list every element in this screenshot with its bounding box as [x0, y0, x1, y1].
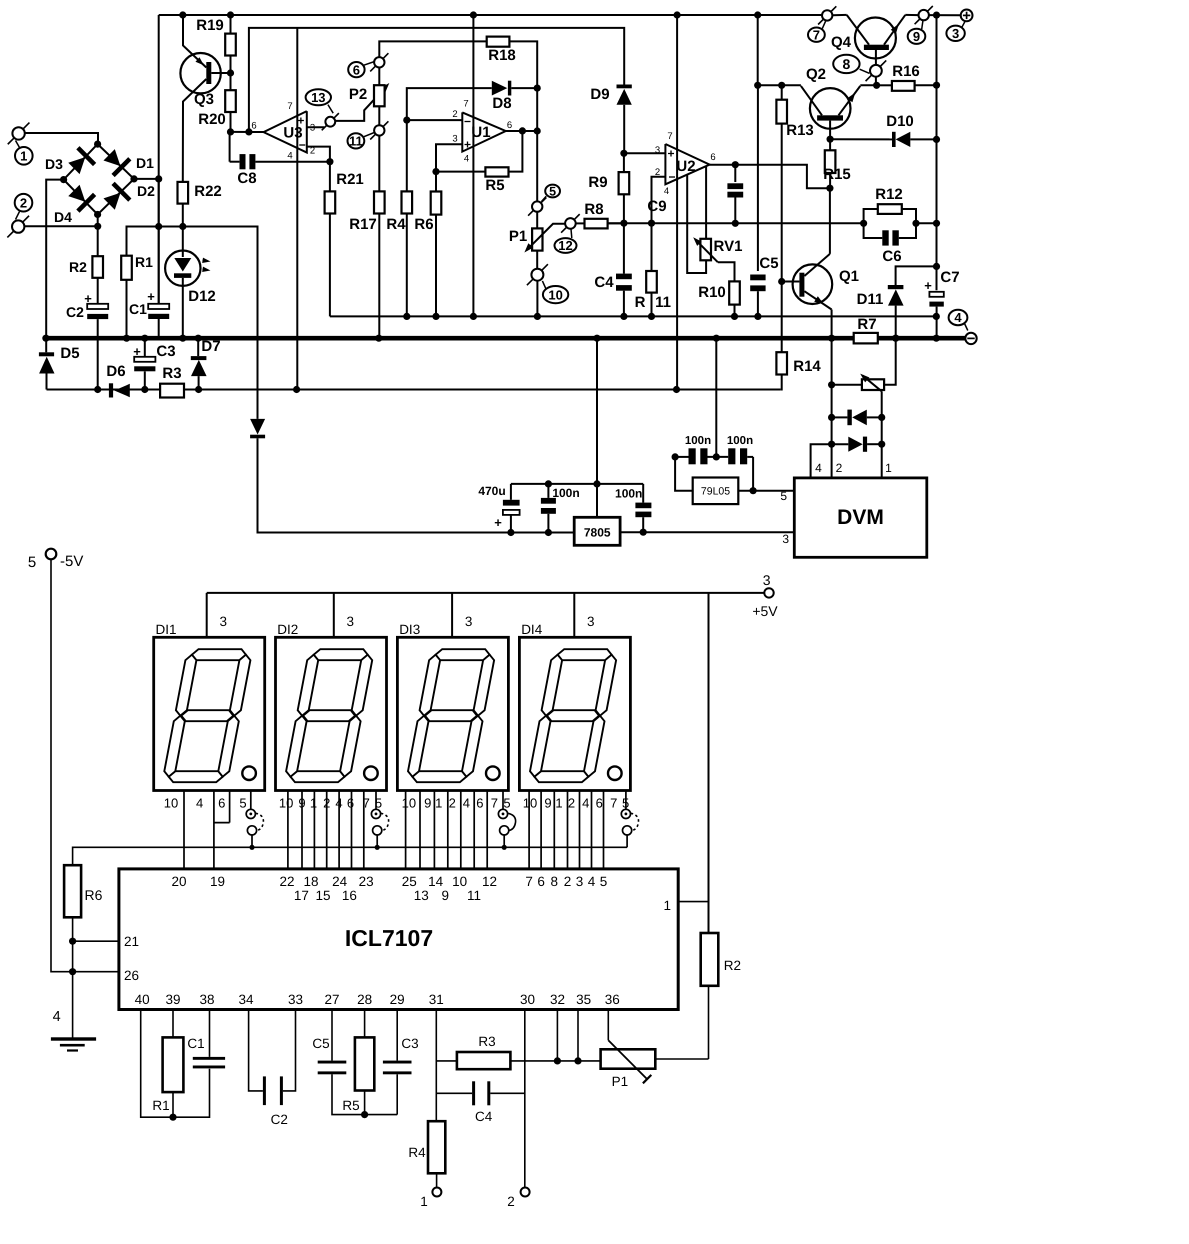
- wire ground rail right part: [878, 336, 965, 341]
- capacitor 100n (b): [642, 484, 644, 503]
- wire Q1 emitter down: [831, 310, 833, 339]
- junction Q2 collector node: [754, 82, 761, 89]
- svg-text:30: 30: [520, 992, 535, 1007]
- svg-text:7: 7: [491, 796, 498, 811]
- junction R15 bottom / output: [826, 185, 833, 192]
- svg-text:+: +: [667, 147, 674, 161]
- svg-text:R15: R15: [823, 166, 851, 183]
- capacitor C5 (bottom): [331, 1010, 333, 1061]
- junction C5 common: [754, 313, 761, 320]
- wire Q2 column from rail: [757, 15, 759, 85]
- junction R4 common: [403, 313, 410, 320]
- svg-text:2: 2: [507, 1194, 515, 1209]
- junction C9 bottom: [732, 220, 739, 227]
- wire RV1 bottom loop to U2: [687, 175, 706, 273]
- svg-text:6: 6: [537, 874, 545, 889]
- junction terminal2 node: [94, 223, 101, 230]
- junction C7 column / rail end: [933, 313, 940, 320]
- svg-text:C3: C3: [401, 1036, 418, 1051]
- svg-text:6: 6: [218, 796, 225, 811]
- resistor R3 (bottom): [436, 1060, 457, 1062]
- svg-text:4: 4: [287, 151, 292, 162]
- display DI2 box: [276, 637, 387, 790]
- op-amp U3: [264, 111, 307, 152]
- wire U1 pin3 node: [436, 144, 462, 191]
- wire pin36 to P1 wiper: [607, 1010, 609, 1041]
- svg-text:R5: R5: [485, 177, 504, 194]
- svg-text:7: 7: [667, 131, 672, 142]
- svg-text:12: 12: [482, 874, 497, 889]
- node label 1: [15, 147, 33, 165]
- junction R8/R9 node: [620, 220, 627, 227]
- terminal 3 (+5V): [764, 588, 773, 597]
- svg-text:5: 5: [600, 874, 608, 889]
- wire P2 wiper to node 13: [335, 85, 388, 121]
- svg-text:R14: R14: [793, 358, 821, 375]
- svg-text:3: 3: [465, 614, 473, 629]
- svg-text:R6: R6: [414, 216, 433, 233]
- svg-text:6: 6: [476, 796, 483, 811]
- svg-text:7: 7: [525, 874, 533, 889]
- svg-text:6: 6: [251, 121, 256, 132]
- transistor Q4: [855, 18, 896, 59]
- svg-text:DVM: DVM: [837, 506, 884, 529]
- connector node 10: [531, 269, 543, 281]
- svg-text:5: 5: [622, 796, 629, 811]
- junction plus column / R12 node: [933, 220, 940, 227]
- junction D11 ground: [892, 335, 899, 342]
- wire reference bus: [608, 222, 864, 224]
- svg-text:Q2: Q2: [806, 66, 826, 83]
- display DI3 pin3 riser: [451, 593, 453, 637]
- wire Q2 emitter to node8: [860, 84, 876, 86]
- junction raw+ column / bridge output: [155, 175, 162, 182]
- op-amp U2: [665, 144, 709, 184]
- svg-text:DI2: DI2: [277, 622, 298, 637]
- svg-text:15: 15: [315, 888, 330, 903]
- wire DVM pin4: [811, 444, 832, 478]
- junction R11 top: [648, 220, 655, 227]
- resistor R21: [329, 162, 331, 192]
- wire pin32 column: [556, 1010, 558, 1061]
- svg-text:31: 31: [429, 992, 444, 1007]
- svg-text:3: 3: [782, 532, 789, 546]
- diode D15 (to DVM): [828, 441, 835, 448]
- junction bridge bottom corner: [94, 211, 101, 218]
- resistor R18: [487, 37, 510, 47]
- display DI1 pins 4-6 bracket: [229, 791, 231, 823]
- junction bridge left corner: [60, 176, 67, 183]
- svg-text:U2: U2: [676, 158, 695, 175]
- junction raw+ rail / Q2 base column: [754, 11, 761, 18]
- terminal - (output negative): [965, 333, 976, 344]
- capacitor C8: [229, 132, 231, 162]
- svg-text:Q3: Q3: [194, 91, 214, 108]
- DVM box: [794, 478, 927, 557]
- svg-text:+: +: [84, 291, 92, 306]
- svg-text:3: 3: [952, 26, 959, 41]
- wire 7805 top column: [596, 338, 598, 517]
- svg-text:5: 5: [503, 796, 510, 811]
- junction Q1 base: [778, 278, 785, 285]
- svg-text:3: 3: [347, 614, 355, 629]
- display DI3 box: [397, 637, 508, 790]
- junction R5 feedback on output: [519, 127, 526, 134]
- wire bridge diamond: [64, 144, 134, 214]
- wire U1 output: [506, 130, 538, 132]
- display DI4 pin5 jumper: [625, 791, 627, 810]
- wire D11 top: [896, 266, 937, 285]
- resistor R4: [406, 120, 408, 191]
- resistor R2 (bottom): [701, 933, 719, 986]
- svg-text:D4: D4: [54, 209, 72, 225]
- svg-text:3: 3: [587, 614, 595, 629]
- junction U2 pin3 node: [620, 150, 627, 157]
- display DI2 decimal point: [364, 766, 378, 780]
- terminal 1 (bottom): [432, 1188, 441, 1197]
- svg-text:2: 2: [323, 796, 330, 811]
- svg-text:32: 32: [550, 992, 565, 1007]
- wire U2 output: [710, 165, 830, 189]
- wire D10 wire: [830, 138, 892, 140]
- op-amp U1: [462, 112, 505, 151]
- wire pin40 loop: [141, 1010, 173, 1118]
- svg-text:+: +: [133, 344, 141, 359]
- node label 6: [348, 62, 364, 77]
- wire P1 wiper: [527, 224, 565, 250]
- junction R12/C6 right: [912, 220, 919, 227]
- wire U2 supply line: [676, 15, 678, 390]
- svg-text:C3: C3: [156, 343, 175, 360]
- capacitor 100n (a): [547, 484, 549, 498]
- wire filter caps line: [511, 483, 643, 485]
- junction U2 output / C9: [732, 161, 739, 168]
- terminal 2 (bottom): [521, 1188, 530, 1197]
- svg-text:5: 5: [239, 796, 246, 811]
- resistor R19: [230, 15, 232, 34]
- node label 4 (minus): [949, 310, 968, 325]
- wire 79L05 input drop: [672, 453, 679, 460]
- wire R12/C6 left node: [860, 220, 867, 227]
- junction P1 common: [534, 313, 541, 320]
- svg-text:D8: D8: [492, 95, 511, 112]
- svg-text:4: 4: [588, 874, 596, 889]
- svg-text:+: +: [924, 278, 932, 293]
- svg-text:R22: R22: [194, 183, 222, 200]
- junction R5 left: [432, 168, 439, 175]
- svg-text:C1: C1: [129, 301, 147, 317]
- wire U3 supply line: [296, 28, 298, 390]
- svg-text:5: 5: [780, 489, 787, 503]
- regulator 79L05: [693, 478, 739, 505]
- wire raw+ top rail: [159, 14, 822, 16]
- wire ICL pin1: [678, 901, 708, 903]
- svg-text:D7: D7: [201, 338, 220, 355]
- connector node 7: [822, 10, 832, 20]
- svg-text:D3: D3: [45, 156, 63, 172]
- wire raw+ rail left drop to bridge output: [158, 15, 160, 304]
- display DI1 digit: [192, 649, 246, 660]
- junction 100n cap top: [545, 480, 552, 487]
- junction R1 ground: [123, 335, 130, 342]
- junction C3 bottom: [141, 386, 148, 393]
- junction 100n bottom: [545, 529, 552, 536]
- wire ICL pin21: [73, 940, 119, 942]
- diode D8: [492, 81, 508, 96]
- wire U3 pin2 to R21 node: [307, 147, 330, 162]
- wire output column down to node 5: [536, 88, 538, 202]
- svg-text:R1: R1: [135, 254, 153, 270]
- svg-text:P1: P1: [612, 1074, 629, 1089]
- svg-text:+5V: +5V: [752, 603, 778, 619]
- wire node5 to P1: [536, 212, 538, 229]
- capacitor C 470u: [510, 484, 512, 500]
- resistor R5 (bottom): [364, 1010, 366, 1038]
- svg-text:26: 26: [124, 968, 139, 983]
- svg-text:79L05: 79L05: [701, 486, 730, 498]
- wire P2 top feed: [379, 41, 486, 57]
- wire terminal2 to bridge bottom: [24, 225, 97, 227]
- connector node 5: [532, 201, 542, 211]
- svg-text:19: 19: [210, 874, 225, 889]
- wire P2 bottom to connector 11: [378, 106, 380, 125]
- svg-text:1: 1: [435, 796, 442, 811]
- svg-text:R7: R7: [857, 316, 876, 333]
- wire P1 right to R2: [655, 1058, 708, 1060]
- wire R15 to Q1 collector: [829, 188, 831, 254]
- resistor R6 (reference): [64, 865, 81, 917]
- svg-text:C5: C5: [759, 255, 778, 272]
- junction R16 right: [933, 82, 940, 89]
- svg-text:4: 4: [463, 796, 470, 811]
- svg-text:18: 18: [303, 874, 318, 889]
- wire 7805 input line: [258, 438, 575, 532]
- transistor Q3: [180, 53, 220, 93]
- svg-text:17: 17: [294, 888, 309, 903]
- wire U1 supply line: [472, 15, 474, 316]
- svg-text:C5: C5: [312, 1036, 329, 1051]
- capacitor C4 (integrator): [623, 223, 625, 273]
- svg-text:4: 4: [53, 1009, 61, 1025]
- resistor R13: [781, 85, 783, 99]
- svg-text:25: 25: [402, 874, 417, 889]
- capacitor C2 (bottom): [249, 1010, 263, 1091]
- junction D7 bottom: [195, 386, 202, 393]
- display DI1 pin5 jumper: [250, 791, 252, 810]
- svg-text:27: 27: [324, 992, 339, 1007]
- wire U3 pin3 stub: [307, 126, 325, 128]
- junction D6 left node: [94, 386, 101, 393]
- resistor R17: [378, 136, 380, 192]
- svg-text:Q1: Q1: [839, 268, 859, 285]
- svg-text:R10: R10: [698, 284, 726, 301]
- svg-text:9: 9: [441, 888, 449, 903]
- svg-text:11: 11: [655, 294, 671, 311]
- display DI2 pin wires: [287, 791, 289, 869]
- diode D3: [68, 157, 85, 174]
- svg-text:7: 7: [610, 796, 617, 811]
- resistor R14: [776, 352, 787, 374]
- display DI2 pin3 riser: [333, 593, 335, 637]
- capacitor C1 (osc): [173, 1069, 210, 1118]
- trimmer P2: [374, 85, 385, 106]
- wire P2 top to connector: [378, 68, 380, 86]
- svg-text:470u: 470u: [478, 484, 505, 498]
- wire P1 bottom to node 10: [536, 251, 538, 269]
- capacitor C3 (electrolytic): [144, 338, 146, 357]
- junction D10 right: [933, 136, 940, 143]
- svg-text:38: 38: [199, 992, 214, 1007]
- svg-text:13: 13: [414, 888, 429, 903]
- diode D4: [68, 185, 85, 202]
- wire DP bus: [73, 847, 628, 865]
- display DI4 digit: [558, 649, 612, 660]
- connector node 9: [919, 10, 929, 20]
- svg-text:2: 2: [836, 461, 843, 475]
- svg-text:12: 12: [558, 238, 572, 253]
- wire terminal1 to bridge top: [25, 133, 98, 144]
- svg-text:35: 35: [576, 992, 591, 1007]
- junction raw+ rail / R19: [227, 11, 234, 18]
- junction D8/R18 output column: [534, 85, 541, 92]
- capacitor 100n (c): [689, 448, 696, 464]
- svg-text:−: −: [464, 115, 471, 129]
- resistor R7 inline: [854, 333, 878, 344]
- wire R1/C1 node line: [127, 227, 258, 419]
- display DI1 pin wires: [183, 791, 185, 869]
- svg-text:7: 7: [363, 796, 370, 811]
- junction Q3 base / R19 / R20: [227, 69, 234, 76]
- svg-text:R19: R19: [196, 17, 224, 34]
- wire pin35 column: [577, 1010, 579, 1061]
- junction R6 common: [432, 313, 439, 320]
- resistor R3 inline: [160, 384, 184, 398]
- svg-text:1: 1: [420, 1194, 428, 1209]
- svg-text:D1: D1: [136, 155, 154, 171]
- capacitor C7 (electrolytic): [929, 292, 943, 297]
- svg-text:2: 2: [449, 796, 456, 811]
- diode D10: [892, 132, 896, 147]
- node label 12: [555, 238, 577, 253]
- connector node 11: [374, 125, 384, 135]
- connector node 6: [374, 57, 384, 67]
- svg-text:9: 9: [298, 796, 305, 811]
- svg-text:C4: C4: [594, 274, 614, 291]
- transistor Q1: [793, 264, 833, 304]
- svg-text:P1: P1: [509, 228, 527, 245]
- wire connector7 to Q4: [833, 14, 847, 16]
- svg-text:C6: C6: [882, 248, 901, 265]
- wire -5V column: [51, 559, 119, 971]
- svg-text:R2: R2: [724, 958, 741, 973]
- resistor R6: [431, 192, 442, 215]
- junction plus column: [933, 12, 940, 19]
- junction trimmer tail / D14: [878, 414, 885, 421]
- diode D6: [109, 383, 113, 397]
- transistor Q2: [810, 88, 851, 129]
- svg-text:C7: C7: [940, 269, 959, 286]
- svg-text:R21: R21: [336, 171, 364, 188]
- junction C4 common: [620, 313, 627, 320]
- svg-text:D2: D2: [137, 183, 155, 199]
- wire U1 pin2 feedback node: [407, 88, 492, 120]
- svg-text:100n: 100n: [615, 487, 642, 501]
- wire R20 node to U3 output: [231, 131, 264, 133]
- svg-text:R3: R3: [478, 1034, 495, 1049]
- junction output column: [534, 127, 541, 134]
- node label 7: [808, 28, 825, 42]
- svg-text:7: 7: [463, 99, 468, 110]
- terminal + (output positive): [961, 10, 973, 22]
- wire U2 pin3 stub: [624, 152, 666, 154]
- resistor R22: [178, 182, 189, 204]
- svg-text:4: 4: [464, 154, 469, 165]
- display DI2 pin5 jumper: [375, 791, 377, 810]
- wire node9 to plus terminal: [929, 14, 961, 16]
- svg-text:4: 4: [664, 186, 669, 197]
- svg-text:9: 9: [913, 29, 920, 44]
- svg-text:P2: P2: [349, 86, 367, 103]
- junction U1 supply common: [470, 313, 477, 320]
- LED D12: [182, 227, 184, 251]
- svg-text:100n: 100n: [552, 486, 579, 500]
- wire bridge left corner to minus column: [46, 180, 63, 340]
- display DI1 decimal point: [242, 766, 256, 780]
- resistor R4 (bottom): [428, 1121, 445, 1173]
- ground symbol: [51, 1037, 96, 1040]
- svg-text:-5V: -5V: [60, 553, 83, 570]
- svg-text:+: +: [464, 138, 471, 152]
- svg-text:4: 4: [815, 461, 822, 475]
- junction C7 ground: [933, 335, 940, 342]
- svg-text:R18: R18: [488, 47, 516, 64]
- resistor R1 (osc): [172, 1010, 174, 1038]
- svg-text:−: −: [299, 138, 306, 152]
- svg-text:R17: R17: [349, 216, 377, 233]
- svg-text:5: 5: [28, 554, 36, 571]
- junction bridge right corner: [130, 175, 137, 182]
- svg-text:22: 22: [279, 874, 294, 889]
- svg-text:3: 3: [655, 145, 660, 156]
- capacitor C9: [734, 165, 736, 182]
- display DI4 pin wires: [528, 791, 530, 869]
- svg-text:2: 2: [20, 195, 27, 210]
- wire Q2 collector wire: [758, 84, 801, 86]
- diode D5: [45, 340, 47, 352]
- wire node10 to common rail: [536, 281, 538, 317]
- svg-text:R5: R5: [342, 1098, 359, 1113]
- svg-text:DI1: DI1: [156, 622, 177, 637]
- svg-text:R8: R8: [584, 201, 603, 218]
- resistor R8: [576, 222, 585, 224]
- svg-text:5: 5: [375, 796, 382, 811]
- svg-text:C1: C1: [187, 1036, 204, 1051]
- junction caps center to ground: [713, 453, 720, 460]
- display DI3 pin wires: [405, 791, 407, 869]
- svg-text:2: 2: [564, 874, 572, 889]
- junction 79L05 output: [750, 487, 757, 494]
- diode D14 (to DVM): [828, 414, 835, 421]
- svg-text:6: 6: [347, 796, 354, 811]
- svg-text:D5: D5: [60, 345, 79, 362]
- junction R6 bottom / pin21: [69, 938, 76, 945]
- svg-text:10: 10: [452, 874, 467, 889]
- svg-text:4: 4: [335, 796, 342, 811]
- svg-text:3: 3: [763, 572, 771, 588]
- trimmer P1 (bottom): [601, 1049, 656, 1068]
- svg-text:4: 4: [582, 796, 589, 811]
- svg-text:D10: D10: [886, 113, 914, 130]
